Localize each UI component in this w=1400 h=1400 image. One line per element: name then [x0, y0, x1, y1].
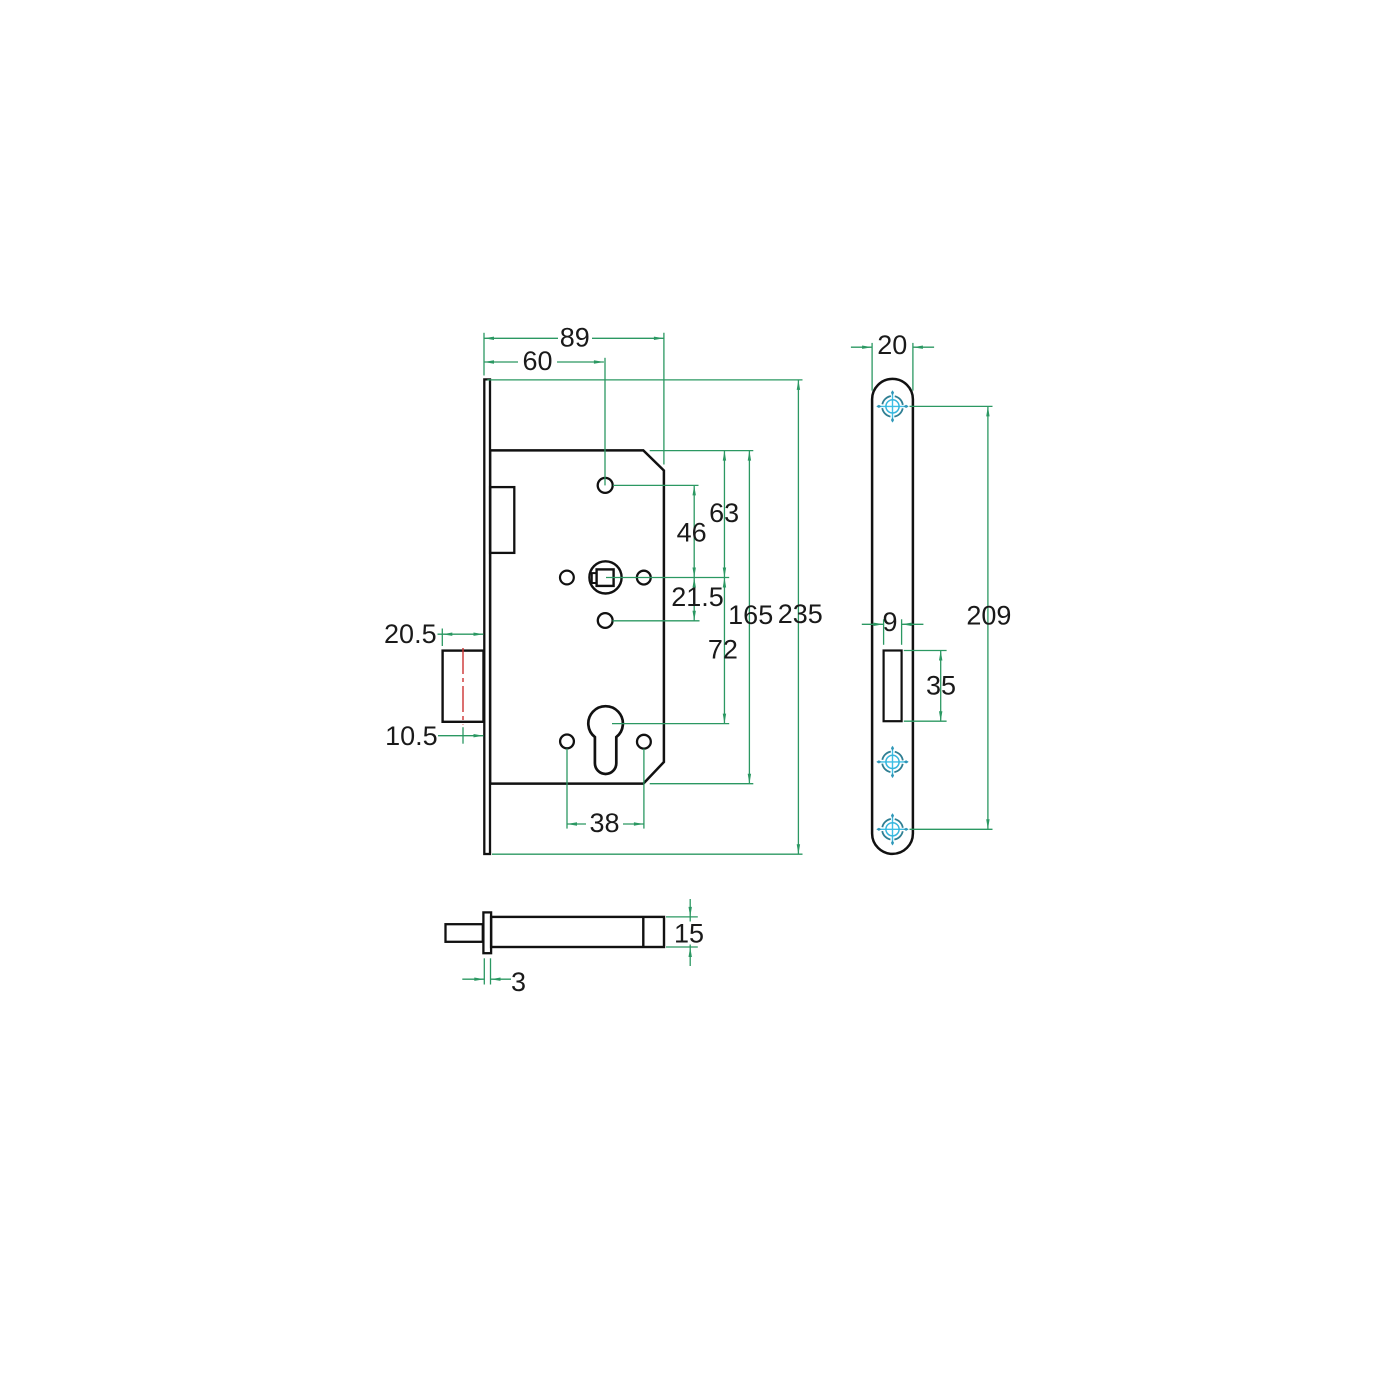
deadbolt centerline: [462, 648, 464, 725]
svg-text:165: 165: [728, 600, 773, 630]
arrow 20.5 right: [474, 633, 484, 636]
arrow 38 left: [567, 822, 577, 825]
arrow 89 left: [484, 337, 494, 340]
ext line case top: [650, 450, 754, 452]
dim 63 and 72 line: [723, 451, 725, 724]
deadbolt rectangle: [443, 651, 484, 722]
arrow 165 top: [748, 451, 751, 461]
arrow 20 right: [913, 346, 923, 349]
svg-text:72: 72: [708, 635, 738, 665]
ext line lower hole horizontal: [613, 620, 700, 622]
dim 3 left tail: [462, 978, 484, 980]
arrow 21.5 bottom: [693, 611, 696, 621]
ext line 60 to top hole: [604, 358, 606, 486]
ext line 38 left: [566, 749, 568, 829]
ext line 9 right: [901, 619, 903, 645]
screw hole crosshair top: [876, 390, 908, 422]
latch body: [491, 917, 664, 947]
arrow 15 bottom: [689, 947, 692, 957]
arrow 9 left: [874, 623, 884, 626]
arrow 165 bottom: [748, 774, 751, 784]
ext line 15 bottom: [666, 946, 698, 948]
arrow 20.5 left: [442, 633, 452, 636]
ext line 209 bottom: [910, 828, 993, 830]
arrow 38 right: [634, 822, 644, 825]
dim 9 right tail: [902, 623, 924, 625]
dim 35 line: [940, 651, 942, 722]
euro cylinder hole: [588, 706, 623, 774]
spindle follower circle: [589, 561, 621, 593]
ext line 15 top: [666, 916, 698, 918]
svg-text:3: 3: [511, 967, 526, 997]
left small hole: [560, 571, 574, 585]
ext line left of 89/60: [483, 333, 485, 376]
dim 20.5 line: [438, 633, 484, 635]
arrow 89 right: [654, 337, 664, 340]
bottom left hole: [560, 735, 574, 749]
svg-text:46: 46: [677, 517, 707, 547]
dim 21.5 line: [693, 578, 695, 621]
svg-text:235: 235: [778, 599, 823, 629]
dim 15 line: [689, 917, 691, 947]
screw hole crosshair middle: [876, 746, 908, 778]
plate slot: [884, 651, 902, 722]
dim 20 left tail: [851, 346, 872, 348]
ext line 209 top: [910, 405, 993, 407]
ext line right of 89: [663, 333, 665, 465]
lower small hole: [598, 613, 613, 628]
arrow 3 right: [491, 978, 501, 981]
arrow 21.5 top: [693, 578, 696, 588]
svg-text:9: 9: [882, 607, 897, 637]
ext line 35 bottom: [904, 720, 947, 722]
right small hole: [637, 571, 651, 585]
ext line 20 right: [912, 343, 914, 391]
spindle square tab: [592, 573, 597, 583]
svg-text:209: 209: [966, 601, 1011, 631]
svg-text:35: 35: [926, 671, 956, 701]
dim 209 line: [987, 406, 989, 829]
ext line 3 right: [490, 958, 492, 984]
striking plate outline: [872, 379, 913, 854]
dim 10.5 line: [438, 735, 484, 737]
arrowheads left view: [442, 337, 800, 855]
svg-text:15: 15: [674, 919, 704, 949]
ext line faceplate bottom: [492, 853, 803, 855]
arrow 209 bottom: [986, 819, 989, 829]
arrow 35 bottom: [939, 711, 942, 721]
ext line faceplate top: [487, 379, 802, 381]
arrow 3 left: [474, 978, 484, 981]
dim 9 left tail: [862, 623, 884, 625]
arrow 35 top: [939, 651, 942, 661]
latch housing rectangle: [490, 487, 514, 553]
arrow 60 right: [594, 360, 604, 363]
spindle square hole: [597, 569, 614, 586]
arrow 63 bottom: [723, 568, 726, 578]
bottom right hole: [637, 735, 651, 749]
svg-text:63: 63: [709, 498, 739, 528]
ext tick 20.5: [441, 629, 443, 647]
ext line case bottom: [650, 783, 754, 785]
green dims right view: [851, 343, 993, 829]
svg-text:20.5: 20.5: [384, 619, 437, 649]
screw hole crosshair bottom: [876, 813, 908, 845]
faceplate edge-on: [483, 912, 491, 953]
arrow 235 top: [797, 380, 800, 390]
arrow 60 left: [484, 360, 494, 363]
latch end cap line: [642, 917, 644, 947]
dim 60 line: [484, 361, 518, 363]
dim 20 right tail: [913, 346, 934, 348]
ext line 20 left: [871, 343, 873, 391]
top fixing hole: [598, 478, 613, 493]
arrow 72 top: [723, 578, 726, 588]
ext line 9 left: [883, 619, 885, 645]
svg-text:60: 60: [522, 346, 552, 376]
ext line 3 left: [483, 958, 485, 984]
ext tick 10.5: [462, 727, 464, 744]
arrow 10.5 right: [474, 734, 484, 737]
dim 235 line: [797, 380, 799, 854]
dim 165 line: [748, 451, 750, 784]
arrow 46 bottom: [693, 568, 696, 578]
svg-text:21.5: 21.5: [671, 582, 724, 612]
label 15 background: [675, 922, 704, 945]
ext line 38 right: [643, 749, 645, 829]
arrow 63 top: [723, 451, 726, 461]
svg-text:20: 20: [877, 330, 907, 360]
arrow 9 right: [902, 623, 912, 626]
ext line cylinder horizontal: [612, 723, 729, 725]
label 38 background: [586, 810, 623, 834]
dim 15 stub top: [689, 899, 691, 917]
arrow 46 top: [693, 485, 696, 495]
dim 38 line: [567, 823, 644, 825]
dimension texts left view: [384, 322, 823, 838]
dim 15 stub bottom: [689, 947, 691, 966]
forend faceplate strip: [484, 379, 490, 854]
dim 89 line: [484, 337, 558, 339]
svg-text:89: 89: [560, 322, 590, 352]
arrow 15 top: [689, 907, 692, 917]
lock case outline: [490, 450, 664, 783]
svg-text:10.5: 10.5: [385, 721, 438, 751]
ext line spindle horizontal: [606, 577, 729, 579]
arrow 72 bottom: [723, 714, 726, 724]
dim 3 right tail: [491, 978, 512, 980]
ext line 35 top: [904, 650, 947, 652]
arrow 235 bottom: [797, 844, 800, 854]
arrow 20 left: [862, 346, 872, 349]
dim 46 line: [693, 485, 695, 577]
latch head: [446, 924, 483, 942]
svg-text:38: 38: [589, 808, 619, 838]
arrow 209 top: [986, 406, 989, 416]
ext line top hole horizontal: [613, 484, 699, 486]
